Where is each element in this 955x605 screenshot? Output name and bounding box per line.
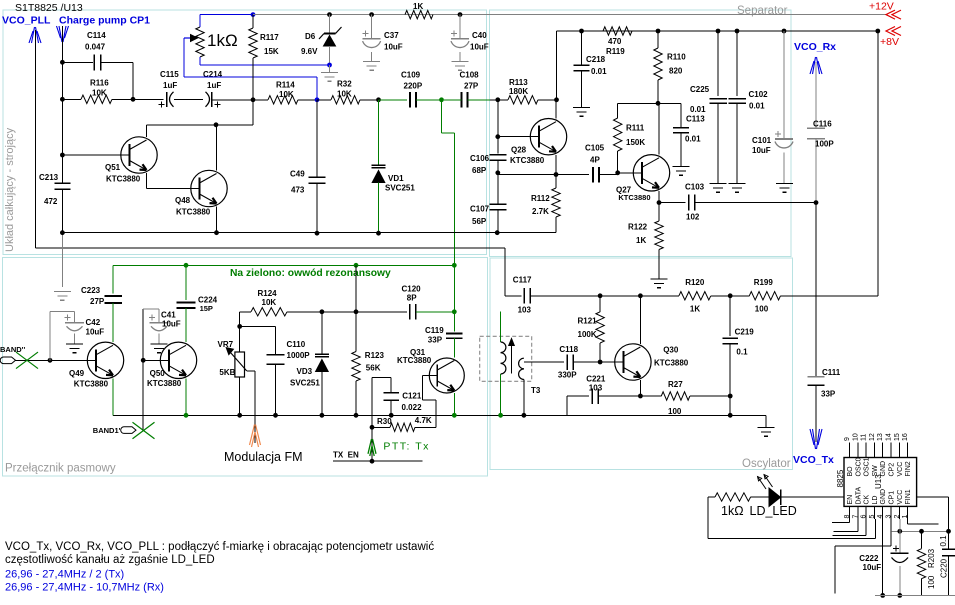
svg-text:FIN2: FIN2 bbox=[905, 461, 912, 476]
svg-text:R116: R116 bbox=[90, 79, 109, 88]
svg-text:4P: 4P bbox=[590, 156, 600, 165]
svg-text:56P: 56P bbox=[472, 217, 487, 226]
svg-text:1kΩ: 1kΩ bbox=[207, 31, 238, 50]
svg-text:T3: T3 bbox=[531, 386, 541, 395]
svg-text:CK: CK bbox=[864, 494, 871, 504]
svg-text:15: 15 bbox=[894, 433, 901, 441]
svg-text:473: 473 bbox=[291, 186, 305, 195]
svg-text:12: 12 bbox=[869, 433, 876, 441]
svg-text:R113: R113 bbox=[509, 78, 528, 87]
svg-text:2: 2 bbox=[894, 515, 901, 519]
svg-text:330P: 330P bbox=[558, 371, 577, 380]
svg-text:C41: C41 bbox=[161, 311, 176, 320]
svg-text:C121: C121 bbox=[402, 392, 422, 401]
svg-text:1: 1 bbox=[902, 515, 909, 519]
svg-text:0.022: 0.022 bbox=[402, 403, 423, 412]
svg-text:C113: C113 bbox=[686, 115, 705, 124]
svg-text:R111: R111 bbox=[626, 124, 645, 133]
svg-text:56K: 56K bbox=[366, 363, 381, 372]
svg-text:C119: C119 bbox=[425, 326, 444, 335]
svg-text:R30: R30 bbox=[377, 417, 392, 426]
svg-text:100: 100 bbox=[668, 407, 682, 416]
svg-text:GND: GND bbox=[880, 489, 887, 505]
svg-text:9: 9 bbox=[844, 437, 851, 441]
svg-text:R120: R120 bbox=[685, 278, 705, 287]
svg-text:10K: 10K bbox=[92, 89, 107, 98]
svg-text:C111: C111 bbox=[822, 368, 841, 377]
svg-text:102: 102 bbox=[686, 213, 700, 222]
svg-text:8P: 8P bbox=[407, 293, 417, 302]
svg-text:0.047: 0.047 bbox=[85, 43, 106, 52]
svg-text:C114: C114 bbox=[87, 31, 106, 40]
svg-text:C40: C40 bbox=[472, 31, 487, 40]
svg-text:C220: C220 bbox=[940, 558, 949, 578]
svg-text:100: 100 bbox=[927, 575, 936, 589]
svg-text:33P: 33P bbox=[428, 335, 443, 344]
svg-text:VCO_Tx: VCO_Tx bbox=[793, 454, 834, 466]
svg-text:Q48: Q48 bbox=[175, 196, 191, 205]
svg-text:R112: R112 bbox=[531, 194, 550, 203]
svg-text:C101: C101 bbox=[752, 136, 772, 145]
svg-text:C222: C222 bbox=[859, 554, 879, 563]
svg-text:VD3: VD3 bbox=[297, 367, 313, 376]
svg-text:VD1: VD1 bbox=[388, 174, 404, 183]
svg-text:BAND1': BAND1' bbox=[93, 426, 121, 435]
svg-text:C213: C213 bbox=[39, 173, 59, 182]
svg-text:R121: R121 bbox=[578, 317, 598, 326]
svg-text:DATA: DATA bbox=[855, 487, 862, 505]
svg-text:8: 8 bbox=[844, 515, 851, 519]
svg-text:KTC3880: KTC3880 bbox=[654, 359, 689, 368]
svg-text:470: 470 bbox=[608, 37, 622, 46]
svg-text:C105: C105 bbox=[585, 144, 605, 153]
svg-text:C117: C117 bbox=[513, 276, 532, 285]
svg-text:C115: C115 bbox=[160, 70, 179, 79]
svg-text:4: 4 bbox=[877, 515, 884, 519]
svg-text:1K: 1K bbox=[690, 305, 700, 314]
svg-text:Modulacja FM: Modulacja FM bbox=[224, 450, 303, 464]
svg-text:Charge pump CP1: Charge pump CP1 bbox=[59, 15, 150, 27]
svg-text:EN: EN bbox=[847, 495, 854, 505]
svg-text:1K: 1K bbox=[636, 236, 646, 245]
svg-text:2.7K: 2.7K bbox=[532, 207, 549, 216]
svg-text:0.01: 0.01 bbox=[685, 135, 701, 144]
svg-text:R203: R203 bbox=[927, 548, 936, 568]
svg-text:103: 103 bbox=[589, 383, 603, 392]
svg-text:BAND'': BAND'' bbox=[0, 345, 25, 354]
svg-text:472: 472 bbox=[44, 197, 58, 206]
svg-text:KTC3880: KTC3880 bbox=[176, 208, 211, 217]
svg-text:27P: 27P bbox=[90, 297, 105, 306]
svg-text:OSC0: OSC0 bbox=[855, 457, 862, 476]
svg-text:CP1: CP1 bbox=[889, 491, 896, 505]
svg-text:C120: C120 bbox=[402, 284, 422, 293]
svg-text:PTT: Tx: PTT: Tx bbox=[383, 440, 429, 452]
svg-text:R117: R117 bbox=[260, 33, 279, 42]
svg-text:C219: C219 bbox=[735, 328, 755, 337]
svg-text:VCO_Rx: VCO_Rx bbox=[794, 41, 836, 53]
svg-text:10uF: 10uF bbox=[162, 320, 181, 329]
svg-text:27P: 27P bbox=[464, 82, 479, 91]
svg-text:C116: C116 bbox=[813, 120, 832, 129]
svg-text:C102: C102 bbox=[749, 90, 769, 99]
svg-text:VR7: VR7 bbox=[218, 340, 234, 349]
svg-text:FIN1: FIN1 bbox=[905, 489, 912, 504]
svg-text:Separator: Separator bbox=[737, 5, 788, 17]
svg-text:R122: R122 bbox=[628, 223, 648, 232]
svg-text:R199: R199 bbox=[754, 278, 774, 287]
svg-text:Q30: Q30 bbox=[663, 345, 679, 354]
svg-text:OSC1: OSC1 bbox=[864, 457, 871, 476]
svg-text:U13: U13 bbox=[874, 474, 883, 489]
svg-text:103: 103 bbox=[518, 306, 532, 315]
svg-text:C221: C221 bbox=[586, 374, 606, 383]
svg-text:0.01: 0.01 bbox=[749, 102, 765, 111]
svg-text:5KB: 5KB bbox=[219, 368, 235, 377]
svg-text:R123: R123 bbox=[365, 351, 385, 360]
svg-text:C225: C225 bbox=[690, 85, 710, 94]
svg-text:C37: C37 bbox=[384, 31, 399, 40]
svg-text:14: 14 bbox=[886, 433, 893, 441]
svg-text:Oscylator: Oscylator bbox=[742, 458, 791, 470]
svg-text:10uF: 10uF bbox=[863, 563, 882, 572]
svg-text:D6: D6 bbox=[305, 32, 316, 41]
svg-text:TX EN: TX EN bbox=[333, 451, 359, 460]
svg-text:33P: 33P bbox=[821, 390, 836, 399]
svg-text:4.7K: 4.7K bbox=[415, 416, 432, 425]
svg-text:1kΩ: 1kΩ bbox=[721, 504, 744, 518]
svg-text:BO: BO bbox=[847, 466, 854, 477]
svg-text:10K: 10K bbox=[337, 90, 352, 99]
svg-text:R119: R119 bbox=[606, 47, 625, 56]
svg-text:10uF: 10uF bbox=[384, 43, 403, 52]
svg-text:VCC: VCC bbox=[897, 462, 904, 477]
svg-text:GND: GND bbox=[880, 461, 887, 477]
svg-text:8825: 8825 bbox=[836, 469, 845, 487]
svg-text:26,96 - 27,4MHz - 10,7MHz (Rx): 26,96 - 27,4MHz - 10,7MHz (Rx) bbox=[5, 582, 164, 594]
svg-text:KTC3880: KTC3880 bbox=[510, 156, 545, 165]
svg-text:1uF: 1uF bbox=[207, 81, 221, 90]
svg-text:KTC3880: KTC3880 bbox=[74, 380, 109, 389]
svg-text:Q50: Q50 bbox=[150, 369, 166, 378]
svg-text:0.01: 0.01 bbox=[591, 67, 607, 76]
svg-text:7: 7 bbox=[852, 515, 859, 519]
svg-text:16: 16 bbox=[902, 433, 909, 441]
svg-text:10uF: 10uF bbox=[470, 43, 489, 52]
svg-text:1uF: 1uF bbox=[163, 81, 177, 90]
svg-text:C106: C106 bbox=[470, 154, 490, 163]
svg-text:C107: C107 bbox=[470, 205, 490, 214]
svg-text:10uF: 10uF bbox=[752, 146, 771, 155]
svg-text:R110: R110 bbox=[667, 53, 686, 62]
svg-text:LD: LD bbox=[872, 496, 879, 505]
svg-text:S1T8825 /U13: S1T8825 /U13 bbox=[15, 2, 83, 14]
svg-text:180K: 180K bbox=[509, 87, 528, 96]
svg-text:Na zielono: owwód rezonansowy: Na zielono: owwód rezonansowy bbox=[230, 268, 391, 279]
svg-text:C118: C118 bbox=[559, 345, 578, 354]
svg-text:9.6V: 9.6V bbox=[301, 47, 318, 56]
svg-text:C214: C214 bbox=[203, 70, 223, 79]
svg-text:26,96 - 27,4MHz / 2 (Tx): 26,96 - 27,4MHz / 2 (Tx) bbox=[5, 569, 124, 581]
svg-text:1000P: 1000P bbox=[287, 351, 311, 360]
svg-text:C103: C103 bbox=[685, 183, 705, 192]
svg-text:VCO_Tx, VCO_Rx, VCO_PLL : podł: VCO_Tx, VCO_Rx, VCO_PLL : podłączyć f-mi… bbox=[5, 541, 434, 553]
svg-text:R124: R124 bbox=[258, 289, 278, 298]
svg-text:Q28: Q28 bbox=[511, 146, 527, 155]
svg-text:C110: C110 bbox=[287, 340, 306, 349]
svg-text:VCC: VCC bbox=[897, 490, 904, 505]
svg-text:Przełącznik pasmowy: Przełącznik pasmowy bbox=[5, 463, 116, 475]
svg-text:11: 11 bbox=[861, 434, 868, 441]
svg-text:CP2: CP2 bbox=[889, 463, 896, 477]
svg-text:C109: C109 bbox=[401, 71, 421, 80]
svg-text:10K: 10K bbox=[279, 90, 294, 99]
svg-text:+8V: +8V bbox=[880, 36, 899, 48]
svg-text:Układ całkujący - strojący: Układ całkujący - strojący bbox=[4, 127, 16, 252]
svg-text:R32: R32 bbox=[337, 80, 352, 89]
svg-text:6: 6 bbox=[861, 515, 868, 519]
svg-text:R27: R27 bbox=[668, 380, 683, 389]
svg-text:KTC3880: KTC3880 bbox=[147, 379, 182, 388]
svg-text:150K: 150K bbox=[626, 138, 645, 147]
svg-text:VCO_PLL: VCO_PLL bbox=[2, 15, 51, 27]
svg-text:0.01: 0.01 bbox=[690, 105, 706, 114]
svg-text:R114: R114 bbox=[276, 81, 295, 90]
svg-text:820: 820 bbox=[669, 67, 683, 76]
svg-text:C49: C49 bbox=[290, 170, 305, 179]
svg-text:5: 5 bbox=[869, 515, 876, 519]
svg-text:KTC3880: KTC3880 bbox=[106, 175, 141, 184]
svg-text:+12V: +12V bbox=[869, 1, 894, 13]
svg-text:220P: 220P bbox=[404, 82, 423, 91]
svg-text:SVC251: SVC251 bbox=[385, 184, 415, 193]
svg-text:10K: 10K bbox=[262, 298, 277, 307]
svg-text:Q49: Q49 bbox=[69, 369, 85, 378]
svg-text:10uF: 10uF bbox=[86, 328, 105, 337]
svg-text:100P: 100P bbox=[815, 140, 834, 149]
svg-text:LD_LED: LD_LED bbox=[750, 504, 797, 518]
svg-text:100K: 100K bbox=[578, 330, 597, 339]
svg-text:3: 3 bbox=[886, 515, 893, 519]
svg-text:15K: 15K bbox=[264, 47, 279, 56]
svg-text:15P: 15P bbox=[200, 304, 213, 313]
svg-text:C42: C42 bbox=[86, 318, 101, 327]
svg-text:10: 10 bbox=[852, 433, 859, 441]
svg-text:C108: C108 bbox=[460, 71, 480, 80]
svg-text:0.1: 0.1 bbox=[736, 348, 748, 357]
svg-text:0.1: 0.1 bbox=[939, 535, 948, 547]
svg-text:częstotliwość kanału aż zgaśni: częstotliwość kanału aż zgaśnie LD_LED bbox=[5, 554, 215, 566]
svg-text:68P: 68P bbox=[472, 166, 487, 175]
svg-text:100: 100 bbox=[755, 305, 769, 314]
svg-text:C218: C218 bbox=[586, 55, 606, 64]
svg-text:13: 13 bbox=[877, 433, 884, 441]
svg-text:Q51: Q51 bbox=[105, 163, 121, 172]
svg-text:KTC3880: KTC3880 bbox=[397, 356, 432, 365]
svg-text:C223: C223 bbox=[81, 286, 101, 295]
svg-text:SVC251: SVC251 bbox=[290, 378, 320, 387]
svg-text:KTC3880: KTC3880 bbox=[618, 193, 650, 202]
svg-text:1K: 1K bbox=[413, 2, 423, 11]
